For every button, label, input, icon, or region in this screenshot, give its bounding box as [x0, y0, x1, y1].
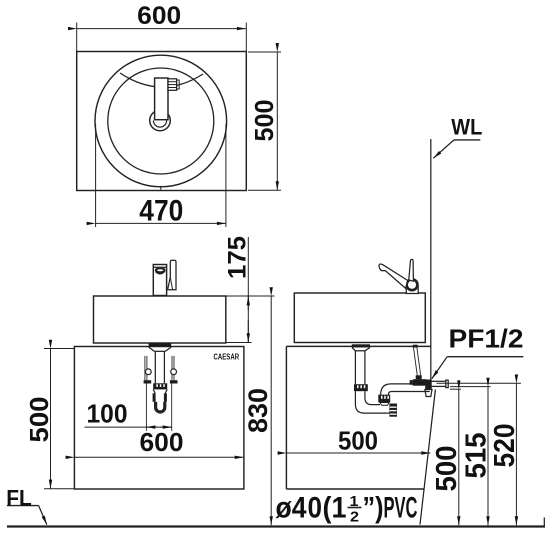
svg-text:2: 2: [350, 509, 359, 526]
svg-text:”): ”): [363, 492, 384, 525]
svg-text:600: 600: [140, 427, 184, 457]
svg-text:500: 500: [24, 397, 54, 443]
svg-text:470: 470: [139, 195, 183, 228]
svg-text:PF1/2: PF1/2: [449, 323, 524, 353]
svg-text:PVC: PVC: [384, 492, 418, 525]
svg-text:600: 600: [137, 2, 181, 30]
svg-text:0: 0: [308, 492, 323, 525]
svg-text:CAESAR: CAESAR: [214, 353, 240, 362]
svg-text:1: 1: [350, 493, 359, 510]
svg-text:500: 500: [338, 425, 378, 455]
svg-text:175: 175: [224, 236, 252, 279]
svg-text:520: 520: [489, 424, 521, 468]
svg-text:(1: (1: [323, 492, 347, 525]
svg-text:500: 500: [249, 100, 279, 142]
svg-text:FL: FL: [6, 485, 32, 510]
svg-text:100: 100: [87, 398, 128, 428]
svg-text:500: 500: [431, 446, 463, 492]
svg-text:830: 830: [243, 388, 273, 433]
svg-text:WL: WL: [451, 114, 482, 139]
svg-text:ø4: ø4: [276, 492, 307, 525]
svg-text:515: 515: [460, 433, 492, 479]
